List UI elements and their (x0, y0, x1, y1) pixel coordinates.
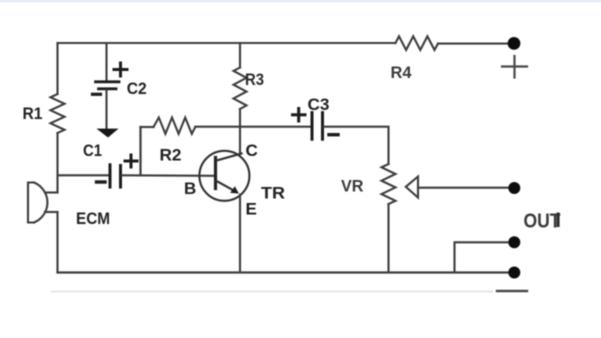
wire: R2 right lead to C3 (through collector junction) (195, 126, 310, 128)
wire: R2 left vertical drop to base wire (139, 127, 141, 175)
svg-text:VR: VR (341, 177, 364, 196)
transistor TR emitter diagonal (217, 181, 237, 192)
svg-text:R4: R4 (391, 63, 413, 82)
node: wiper output terminal dot (508, 182, 520, 194)
capacitor C2 bottom lead wire (105, 90, 107, 128)
wire: top supply rail left section (58, 42, 396, 44)
scan ghost stroke after OUT (557, 213, 560, 228)
transistor TR base bar (214, 158, 217, 189)
capacitor C3 plus sign (293, 109, 306, 122)
svg-text:C: C (246, 141, 258, 160)
microphone ECM body (28, 183, 47, 223)
wire: bottom ground rail (58, 271, 515, 273)
wire: C3 right plate to VR corner (324, 127, 389, 164)
wire: top supply rail right section (R4 to + terminal) (438, 43, 508, 45)
wire: R2 left lead (141, 126, 154, 128)
potentiometer VR resistor zigzag (382, 164, 396, 204)
wire: left rail lower lead (mic to bottom rail) (56, 212, 58, 273)
capacitor C3 minus sign (329, 133, 338, 136)
plus sign of supply terminal (502, 56, 527, 78)
wire: C1 right plate to transistor base (122, 174, 216, 177)
wire: output tap from bottom rail (455, 242, 509, 272)
wire: mic output to C1 left plate (58, 174, 109, 176)
transistor TR collector diagonal (217, 154, 242, 161)
svg-text:E: E (246, 200, 257, 219)
svg-text:ECM: ECM (76, 209, 110, 228)
capacitor C2 plates (96, 82, 120, 89)
C2 bottom arrowhead termination (97, 129, 119, 138)
minus sign of ground terminal (497, 290, 527, 292)
resistor R1 (51, 94, 65, 133)
node: ground terminal dot (508, 267, 520, 279)
wire: emitter down to bottom rail (239, 195, 241, 273)
svg-text:B: B (184, 179, 196, 198)
svg-text:OUT: OUT (524, 211, 561, 233)
svg-text:C3: C3 (308, 95, 330, 114)
svg-text:R3: R3 (245, 70, 264, 89)
ECM upper pin stub (45, 191, 58, 193)
ECM lower pin stub (45, 211, 58, 213)
scan ghost line below bottom rail (52, 291, 492, 293)
wire: VR bottom lead to bottom rail (387, 204, 389, 273)
svg-text:TR: TR (261, 184, 285, 203)
node: positive supply terminal dot (508, 37, 521, 50)
svg-text:C2: C2 (127, 79, 147, 98)
wire: R3 bottom lead down to collector (239, 109, 241, 154)
potentiometer VR wiper arrow (406, 177, 418, 198)
capacitor C1 plates (110, 165, 121, 187)
svg-text:R1: R1 (23, 104, 43, 123)
capacitor C1 plus sign (125, 155, 137, 167)
wire: left rail middle lead (R1 to mic junction) (56, 133, 58, 193)
svg-text:R2: R2 (160, 146, 182, 165)
wire: wiper to output dot (418, 187, 509, 189)
resistor R2 (154, 118, 196, 134)
capacitor C2 top lead wire (105, 43, 107, 80)
transistor TR circle (199, 151, 249, 201)
capacitor C2 plus sign (114, 63, 127, 76)
resistor R4 (396, 36, 439, 50)
wire: R3 top lead from top rail (239, 43, 241, 68)
capacitor C3 plates (312, 113, 323, 140)
transistor TR emitter arrowhead (230, 186, 239, 193)
node: output terminal dot (508, 236, 520, 248)
top edge tint (0, 0, 601, 2)
capacitor C1 minus sign (97, 180, 106, 183)
svg-text:C1: C1 (83, 141, 102, 160)
resistor R3 (234, 68, 247, 110)
capacitor C2 minus sign (93, 93, 101, 96)
wire: left rail upper lead (top rail to R1) (56, 43, 58, 94)
